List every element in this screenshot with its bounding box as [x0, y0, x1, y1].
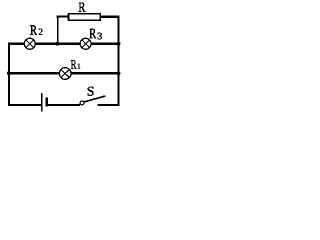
- label S: [88, 87, 94, 96]
- wire: right vertical from resistor row to bottom-right corner: [118, 16, 120, 106]
- node: junction dot at resistor branch / lamp row: [56, 42, 60, 46]
- node: junction dot left vertical / R1 row: [7, 71, 11, 75]
- label R3: [90, 29, 97, 38]
- lamp R1 (circle with X): [59, 68, 71, 80]
- battery short thick plate: [46, 98, 48, 106]
- node: junction dot right vertical / lamp row: [117, 42, 121, 46]
- wire: resistor branch riser at x=57.5: [57, 17, 59, 45]
- label R: [79, 3, 86, 12]
- switch lever: [84, 96, 105, 102]
- wire: bottom row right segment after switch: [98, 104, 119, 106]
- wire: resistor row right stub: [100, 16, 120, 18]
- switch pivot circle: [80, 101, 84, 105]
- battery long plate: [41, 93, 43, 112]
- wire: bottom row middle segment between battery and switch: [48, 104, 80, 106]
- lamp R2 (circle with X): [24, 38, 35, 49]
- label R1: [71, 60, 77, 69]
- node: junction dot right vertical / R1 row: [117, 71, 121, 75]
- wire: top lamp row horizontal (R2/R3 branch): [8, 43, 119, 45]
- lamp R3 (circle with X): [80, 38, 91, 49]
- wire: middle row horizontal (R1 branch): [8, 72, 119, 74]
- wire: left vertical from top-left corner down to bottom-left corner: [8, 43, 10, 106]
- wire: bottom row left segment (battery branch): [8, 104, 41, 106]
- wire: resistor row left stub: [57, 16, 70, 18]
- battery cell: [42, 93, 47, 112]
- resistor R (box): [69, 14, 101, 20]
- label R2: [30, 25, 37, 34]
- switch S: [80, 96, 105, 105]
